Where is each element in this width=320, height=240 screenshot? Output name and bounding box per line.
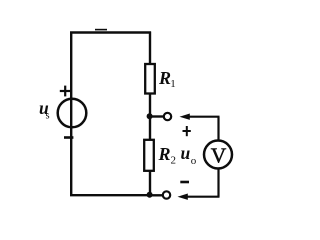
wire stub to bottom terminal — [150, 194, 162, 196]
svg-text:s: s — [46, 110, 50, 121]
node B junction dot — [147, 192, 153, 198]
wire voltmeter top with arrow — [186, 116, 220, 118]
- polarity of source — [64, 136, 73, 139]
wire voltmeter right bottom vertical — [217, 169, 219, 197]
wire voltmeter bottom with arrow — [184, 196, 220, 198]
wire stub to top terminal — [150, 115, 163, 117]
svg-text:V: V — [211, 144, 227, 168]
resistor R2 — [144, 140, 154, 171]
arrowhead bottom (points left) — [178, 194, 188, 200]
resistor R1 — [145, 64, 155, 94]
wire short dash artifact above top wire — [95, 29, 107, 31]
svg-text:R: R — [158, 144, 171, 164]
wire left vertical — [70, 32, 72, 196]
svg-text:1: 1 — [170, 78, 176, 90]
wire below R2 to node B — [149, 171, 151, 197]
wire voltmeter right top vertical — [217, 117, 219, 141]
voltage source u_s — [58, 99, 87, 128]
top terminal open circle — [164, 113, 171, 120]
svg-text:u: u — [181, 143, 191, 163]
+ polarity of source — [60, 86, 71, 97]
svg-text:R: R — [158, 68, 171, 88]
arrowhead top (points left) — [180, 114, 190, 120]
+ polarity of u_o — [183, 126, 191, 136]
svg-text:2: 2 — [171, 155, 177, 167]
voltmeter V circle — [204, 141, 232, 169]
node A junction dot — [147, 113, 153, 119]
wire top horizontal — [70, 31, 151, 33]
bottom terminal open circle — [163, 191, 170, 198]
svg-text:o: o — [191, 155, 197, 167]
wire between node A and R2 — [149, 117, 151, 141]
wire bottom horizontal — [70, 194, 150, 196]
wire between R1 and node A — [149, 94, 151, 118]
wire middle vertical above R1 — [149, 32, 151, 66]
- polarity of u_o — [180, 181, 189, 184]
